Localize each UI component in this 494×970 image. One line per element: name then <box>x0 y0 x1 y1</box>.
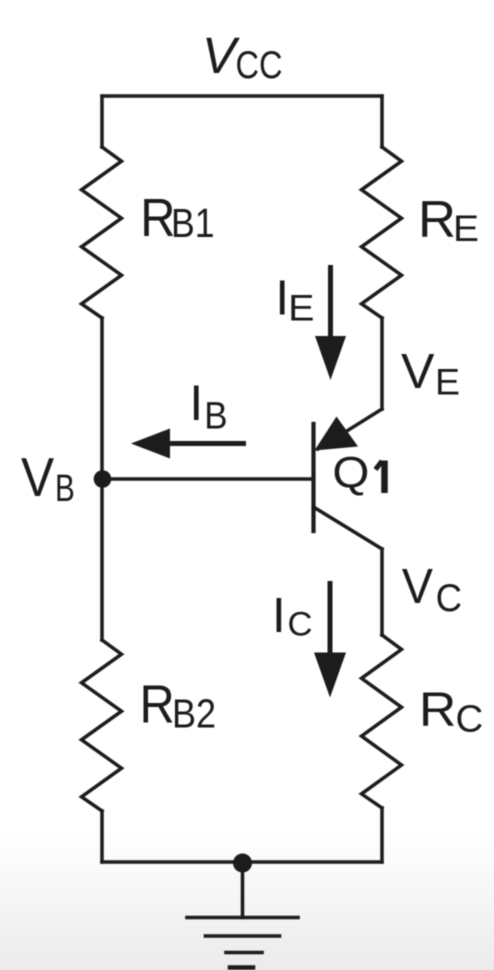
ground bar 1 <box>187 916 298 920</box>
wire right top (VCC to RE) <box>380 96 384 147</box>
svg-text:I: I <box>272 588 286 643</box>
current arrow IB <box>168 441 244 446</box>
svg-text:R: R <box>419 683 456 737</box>
wire top rail VCC <box>102 94 382 98</box>
resistor RC <box>362 635 402 808</box>
svg-text:B1: B1 <box>171 200 215 246</box>
svg-text:R: R <box>140 675 175 734</box>
svg-text:V: V <box>202 27 240 84</box>
svg-text:E: E <box>288 287 314 329</box>
transistor Q1 base bar <box>311 424 315 531</box>
svg-text:B: B <box>204 396 227 438</box>
transistor Q1 collector lead <box>314 507 383 549</box>
node ground junction dot <box>233 854 252 873</box>
wire base (node VB to Q1 base) <box>102 477 314 481</box>
wire left bottom (RB2 to bottom rail) <box>100 811 104 862</box>
resistor RE <box>362 147 402 318</box>
svg-text:I: I <box>189 375 203 431</box>
wire left top (VCC to RB1) <box>100 96 104 147</box>
transistor Q1 emitter lead with arrow <box>318 409 382 449</box>
svg-text:B2: B2 <box>172 691 216 737</box>
wire left middle (RB1 to node VB) <box>100 318 104 479</box>
resistor RB2 <box>82 640 122 811</box>
svg-text:CC: CC <box>236 44 283 87</box>
svg-text:C: C <box>456 698 484 740</box>
svg-text:C: C <box>436 577 462 620</box>
svg-text:B: B <box>55 468 75 510</box>
svg-text:C: C <box>288 606 313 644</box>
ground bar 4 <box>230 965 253 970</box>
svg-text:E: E <box>453 207 479 249</box>
svg-text:R: R <box>418 191 456 249</box>
wire right collector (Q1 to RC) <box>380 549 384 635</box>
current arrow IC <box>328 584 333 661</box>
ground bar 2 <box>206 934 280 938</box>
svg-text:V: V <box>21 447 54 508</box>
ground bar 3 <box>226 951 262 955</box>
svg-text:E: E <box>435 361 460 403</box>
resistor RB1 <box>82 147 122 318</box>
svg-text:V: V <box>402 559 433 614</box>
node VB junction dot <box>94 470 112 488</box>
wire right emitter (RE to Q1 emitter) <box>380 318 384 409</box>
svg-text:V: V <box>401 344 435 399</box>
wire right bottom (RC to bottom rail) <box>380 808 384 862</box>
wire bottom rail <box>102 860 382 864</box>
svg-text:I: I <box>275 271 289 326</box>
current arrow IE <box>328 268 333 345</box>
label Q1 digit 1 <box>381 461 388 494</box>
ground stem <box>241 862 245 918</box>
wire left lower (node VB to RB2) <box>100 479 104 640</box>
svg-text:Q: Q <box>332 450 369 498</box>
